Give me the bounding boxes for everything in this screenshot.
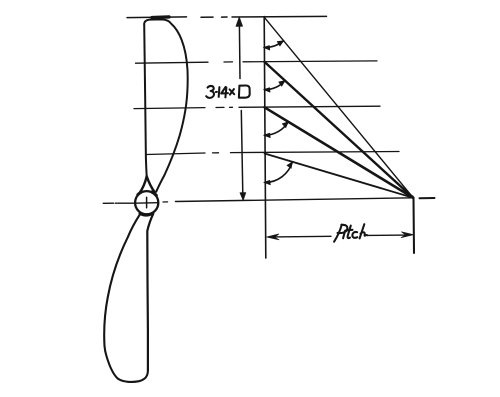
row line 1 right solid <box>232 15 327 18</box>
angle arc 1 arrowhead at vertical <box>263 46 270 51</box>
hub lower shoulder wedge <box>140 213 153 215</box>
pi-D dimension line upper segment <box>238 24 241 79</box>
centerline long solid to convergence <box>176 198 414 202</box>
angle arc 1 arrowhead at diagonal <box>277 41 284 46</box>
centerline dash right of convergence <box>420 197 435 199</box>
diagonal 3 <box>265 107 414 198</box>
centerline dash right of hub <box>163 201 168 203</box>
upper neck left leg to hub <box>139 176 146 193</box>
vertical reference line <box>264 17 266 259</box>
angle arc 2 <box>265 81 285 90</box>
propeller lower blade left edge <box>104 215 148 382</box>
label 3.14xD : digit 3 <box>206 86 214 98</box>
pitch dimension arrow right head <box>401 232 413 238</box>
propeller upper blade outline (top and right edge) <box>144 19 187 191</box>
row line 3 (y=107) left solid <box>134 108 205 109</box>
angle arc 2 arrowhead at vertical <box>263 88 270 93</box>
angle arc 2 arrowhead at diagonal <box>279 81 285 87</box>
label Pitch : letter h <box>360 224 368 238</box>
angle arc 1 <box>265 41 284 48</box>
row line 2 (y=62) left solid <box>136 62 209 63</box>
pitch dimension arrow left head <box>267 234 279 240</box>
centerline dash left <box>103 202 114 204</box>
diagonal 4 <box>265 154 414 198</box>
row line 1 (top, y=17) left solid <box>127 16 187 19</box>
label 3.14xD : decimal dot <box>216 91 217 93</box>
angle arc 4 <box>265 162 292 183</box>
label 3.14xD : digit 4 <box>221 87 228 98</box>
angle arc 4 arrowhead at diagonal <box>287 162 293 169</box>
row line 3 dash <box>216 106 224 108</box>
row line 2 right solid <box>243 60 377 63</box>
label Pitch : letter i <box>343 231 345 239</box>
row line 1 dash <box>201 16 213 18</box>
row line 2 dash <box>224 61 233 63</box>
upper neck right leg to hub <box>147 176 155 192</box>
right vertical pitch boundary <box>412 198 415 254</box>
hub circle <box>135 191 158 214</box>
angle arc 4 arrowhead at vertical <box>264 180 271 185</box>
label Pitch : letter c <box>352 232 357 238</box>
pitch dimension shaft left <box>273 235 331 238</box>
propeller upper blade left edge <box>144 24 147 176</box>
hub cross horizontal <box>135 202 157 205</box>
row line 4 dash <box>213 152 219 154</box>
row line 1 dot <box>222 16 228 18</box>
convergence point ink knot <box>409 194 415 199</box>
label 3.14xD : digit 1 <box>218 87 221 97</box>
hub shoulder left wedge <box>138 192 141 194</box>
diagonal 2 <box>264 62 413 198</box>
pi-D dimension arrowhead down <box>240 193 246 201</box>
centerline dot left <box>116 202 118 204</box>
pi-D dimension arrowhead up <box>236 17 243 27</box>
row line 3 dot <box>230 106 233 108</box>
label Pitch : letter P <box>334 225 347 242</box>
angle arc 3 arrowhead at diagonal <box>282 122 288 128</box>
row line 4 (y=152) left solid <box>146 153 205 155</box>
pitch dimension shaft right <box>368 234 406 236</box>
angle arc 3 arrowhead at vertical <box>264 133 271 138</box>
centerline into hub <box>118 202 135 204</box>
hub cross vertical <box>146 197 148 208</box>
row line 1 blade-top overlap blob <box>152 15 169 19</box>
lower neck right leg from hub to pinch and blade right edge <box>147 214 153 370</box>
row line 3 right solid <box>239 106 380 107</box>
row line 4 right solid <box>231 152 400 153</box>
diagonal 1 from top <box>264 17 413 198</box>
label 3.14xD : letter D <box>239 85 250 97</box>
label Pitch : letter t <box>346 226 353 239</box>
pi-D dimension line lower segment <box>241 111 243 195</box>
label 3.14xD : times sign <box>230 89 235 95</box>
hub shoulder right wedge <box>152 192 156 195</box>
angle arc 3 <box>265 122 289 136</box>
